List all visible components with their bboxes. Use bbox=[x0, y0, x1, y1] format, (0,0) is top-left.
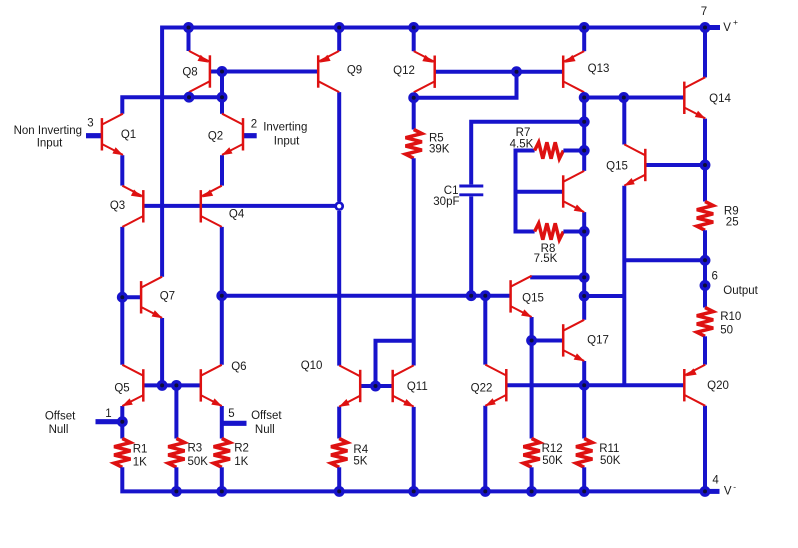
svg-text:Q11: Q11 bbox=[407, 381, 428, 393]
svg-text:6: 6 bbox=[711, 271, 717, 283]
svg-text:Q8: Q8 bbox=[182, 66, 197, 78]
svg-text:Q6: Q6 bbox=[231, 361, 246, 373]
svg-text:39K: 39K bbox=[429, 143, 450, 155]
svg-text:Q22: Q22 bbox=[471, 383, 493, 395]
svg-text:Q17: Q17 bbox=[587, 335, 609, 347]
svg-text:Q15: Q15 bbox=[522, 293, 544, 305]
svg-text:Q9: Q9 bbox=[347, 64, 362, 76]
svg-text:Q10: Q10 bbox=[301, 360, 323, 372]
svg-text:R12: R12 bbox=[542, 443, 563, 455]
svg-text:7.5K: 7.5K bbox=[534, 253, 558, 265]
svg-text:Inverting: Inverting bbox=[263, 122, 307, 134]
svg-text:5: 5 bbox=[228, 408, 234, 420]
svg-text:50K: 50K bbox=[600, 455, 621, 467]
svg-text:4.5K: 4.5K bbox=[510, 139, 534, 151]
svg-text:Q1: Q1 bbox=[121, 129, 136, 141]
svg-text:4: 4 bbox=[712, 475, 719, 487]
svg-text:5K: 5K bbox=[353, 456, 367, 468]
svg-text:Q14: Q14 bbox=[709, 93, 731, 105]
svg-text:V: V bbox=[723, 22, 731, 34]
svg-text:50K: 50K bbox=[542, 455, 563, 467]
svg-text:50K: 50K bbox=[188, 456, 209, 468]
svg-text:7: 7 bbox=[701, 6, 707, 18]
svg-text:R3: R3 bbox=[188, 443, 203, 455]
svg-text:R4: R4 bbox=[353, 444, 368, 456]
svg-text:R7: R7 bbox=[516, 127, 531, 139]
svg-text:+: + bbox=[733, 17, 738, 27]
svg-text:Null: Null bbox=[255, 424, 275, 436]
svg-text:-: - bbox=[733, 482, 736, 492]
svg-text:Q20: Q20 bbox=[707, 380, 729, 392]
svg-text:R11: R11 bbox=[599, 443, 619, 455]
svg-text:Q15: Q15 bbox=[606, 160, 628, 172]
svg-text:Offset: Offset bbox=[45, 410, 76, 422]
svg-text:30pF: 30pF bbox=[433, 196, 459, 208]
svg-text:Offset: Offset bbox=[251, 410, 282, 422]
svg-text:3: 3 bbox=[87, 118, 93, 130]
svg-text:Output: Output bbox=[723, 285, 758, 297]
svg-text:R1: R1 bbox=[133, 443, 148, 455]
svg-text:V: V bbox=[724, 486, 732, 498]
svg-text:Q3: Q3 bbox=[110, 200, 125, 212]
svg-text:50: 50 bbox=[720, 325, 733, 337]
svg-text:Input: Input bbox=[274, 135, 300, 147]
svg-text:Q13: Q13 bbox=[588, 63, 610, 75]
svg-text:Non Inverting: Non Inverting bbox=[14, 125, 82, 137]
svg-text:1: 1 bbox=[105, 408, 111, 420]
svg-text:Input: Input bbox=[37, 137, 63, 149]
svg-text:Q4: Q4 bbox=[229, 209, 245, 221]
svg-text:Q2: Q2 bbox=[208, 130, 223, 142]
svg-text:1K: 1K bbox=[133, 457, 147, 469]
svg-text:R2: R2 bbox=[234, 443, 249, 455]
svg-text:Null: Null bbox=[49, 424, 69, 436]
svg-text:Q7: Q7 bbox=[160, 291, 175, 303]
svg-text:Q12: Q12 bbox=[393, 65, 415, 77]
svg-text:1K: 1K bbox=[234, 456, 248, 468]
svg-text:2: 2 bbox=[251, 118, 257, 130]
svg-text:Q5: Q5 bbox=[114, 382, 129, 394]
svg-text:25: 25 bbox=[726, 216, 739, 228]
svg-text:R10: R10 bbox=[720, 311, 741, 323]
